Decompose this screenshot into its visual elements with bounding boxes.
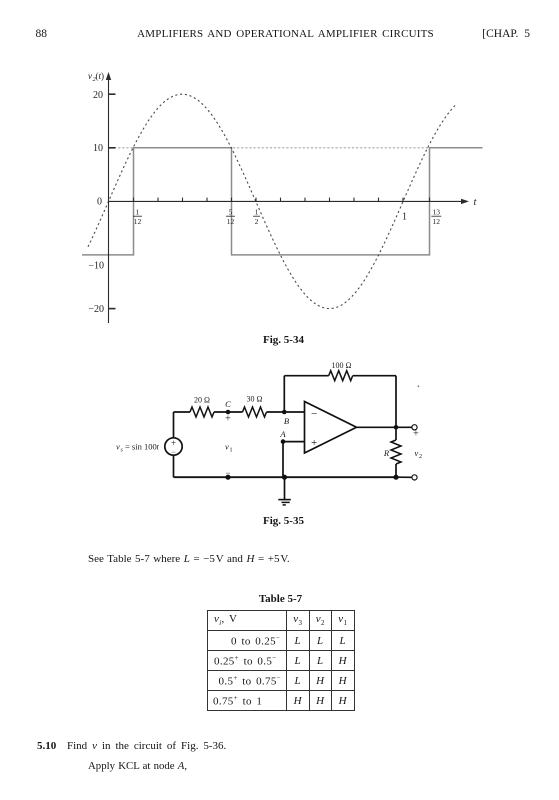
- wire op-amp output: [357, 426, 412, 428]
- wire right vertical down to output: [395, 376, 397, 428]
- fraction 1/12: [133, 208, 441, 226]
- svg-text:−: −: [225, 468, 230, 478]
- svg-text:100 Ω: 100 Ω: [332, 361, 352, 370]
- svg-text:+: +: [413, 429, 419, 440]
- resistor 20 ohm: [190, 407, 214, 417]
- x ticks each 1/12: [134, 198, 430, 202]
- svg-text:20 Ω: 20 Ω: [194, 395, 210, 404]
- resistor R: [391, 440, 401, 464]
- svg-text:+: +: [311, 437, 317, 449]
- resistor 100 ohm (feedback): [329, 371, 353, 381]
- resistor 30 ohm: [243, 407, 267, 417]
- svg-text:13: 13: [433, 208, 441, 217]
- svg-text:B: B: [284, 416, 289, 426]
- svg-text:−10: −10: [88, 261, 104, 272]
- svg-text:v: v: [116, 442, 120, 452]
- x axis: [109, 200, 467, 202]
- label v2: [415, 448, 423, 460]
- output terminal bottom: [412, 475, 417, 480]
- svg-text:−: −: [311, 408, 317, 420]
- ground: [278, 500, 291, 505]
- svg-text:1: 1: [402, 212, 407, 223]
- wire node A down to ground rail: [282, 442, 284, 478]
- see-table sentence: [88, 553, 290, 565]
- svg-text:30 Ω: 30 Ω: [247, 395, 263, 404]
- svg-text:v: v: [88, 71, 92, 81]
- wire R2 to node B: [267, 411, 305, 413]
- output terminal top: [412, 425, 417, 430]
- label v1: [225, 442, 233, 454]
- svg-text:1: 1: [136, 208, 140, 217]
- node C: [225, 399, 231, 424]
- table 5-7: [207, 610, 355, 711]
- svg-text:2: 2: [255, 217, 259, 226]
- value label vs = sin 100t: [116, 442, 160, 454]
- svg-text:0: 0: [97, 196, 102, 207]
- svg-text:t: t: [474, 197, 478, 208]
- svg-text:10: 10: [93, 143, 103, 154]
- wire ground stem: [284, 477, 286, 499]
- wire resistor R to bottom rail: [395, 464, 397, 477]
- node B: [282, 410, 289, 426]
- page header: [36, 28, 48, 40]
- svg-text:R: R: [383, 448, 390, 458]
- node A: [279, 429, 286, 444]
- wire source top: [173, 412, 175, 438]
- caption Fig. 5-35: [4, 515, 559, 527]
- svg-text:v: v: [415, 448, 419, 458]
- dashed +10 reference line: [110, 147, 482, 149]
- svg-text:1: 1: [230, 448, 233, 454]
- output node junction: [394, 425, 399, 430]
- op-amp U1: [305, 402, 357, 454]
- circuit Fig. 5-35: [0, 350, 559, 530]
- svg-text:s: s: [121, 448, 124, 454]
- problem 5.10: [37, 740, 56, 752]
- graph Fig. 5-34: [0, 0, 559, 345]
- table caption: [0, 593, 559, 605]
- y axis: [108, 75, 110, 323]
- svg-text:t: t: [157, 442, 160, 452]
- node v1 minus on bottom rail: [225, 475, 230, 480]
- svg-text:A: A: [279, 429, 286, 439]
- stray print dot: [418, 385, 420, 387]
- wire bottom rail: [174, 476, 397, 478]
- sine curve (dotted): [88, 94, 456, 308]
- output bottom node junction: [393, 475, 398, 480]
- y ticks: [109, 93, 116, 95]
- wire feedback rail right: [353, 375, 396, 377]
- wire R1 to node C: [214, 411, 243, 413]
- wire node B up to feedback rail: [283, 376, 285, 412]
- svg-text:v: v: [225, 442, 229, 452]
- ground junction node: [282, 475, 287, 480]
- svg-text:= sin 100: = sin 100: [125, 442, 157, 452]
- axis labels: [88, 90, 477, 315]
- wire feedback rail left: [284, 375, 328, 377]
- wire output node to resistor R: [395, 427, 397, 440]
- voltage source Vs: [165, 438, 182, 457]
- svg-text:2: 2: [419, 454, 422, 460]
- svg-text:12: 12: [134, 217, 142, 226]
- svg-text:−20: −20: [88, 304, 104, 315]
- wire bottom node to bottom terminal: [396, 476, 412, 478]
- caption Fig. 5-34: [4, 334, 559, 346]
- wire top rail to R1: [174, 411, 191, 413]
- svg-text:5: 5: [229, 208, 233, 217]
- svg-text:20: 20: [93, 90, 103, 101]
- svg-text:12: 12: [227, 217, 235, 226]
- svg-text:1: 1: [255, 208, 259, 217]
- wire node A to noninverting input: [283, 441, 305, 443]
- svg-text:12: 12: [433, 217, 441, 226]
- wire source bottom: [173, 455, 175, 477]
- svg-text:C: C: [225, 399, 231, 409]
- square wave v2: [82, 148, 483, 255]
- svg-text:+: +: [225, 413, 231, 424]
- svg-text:): ): [101, 71, 104, 81]
